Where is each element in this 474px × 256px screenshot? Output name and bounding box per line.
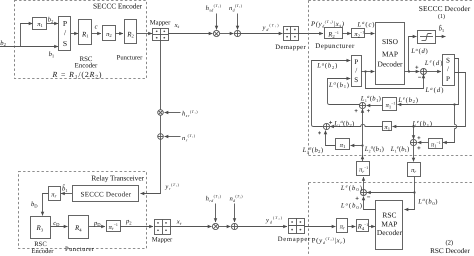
deinterleaver pi1^-1 row3 bbox=[429, 139, 443, 149]
svg-text:Mapper: Mapper bbox=[150, 19, 171, 26]
svg-text:Decoder: Decoder bbox=[377, 228, 403, 237]
wire mapper down to relay bbox=[141, 41, 161, 194]
depuncturer R2^-1 bbox=[325, 28, 343, 39]
mapper (relay) constellation box bbox=[154, 220, 171, 235]
label La(b1) bbox=[328, 81, 349, 90]
adder (source-destination noise) bbox=[234, 30, 240, 36]
wire SISO output to adder with junction bbox=[405, 70, 420, 72]
interleaver pi_r (feedforward) bbox=[408, 163, 421, 177]
svg-text:/: / bbox=[447, 65, 449, 73]
svg-text:yd(T₂): yd(T₂) bbox=[265, 216, 283, 224]
wire R4 to pi_r_inv bbox=[89, 226, 105, 228]
label SECCC Encoder bbox=[93, 1, 143, 10]
adder A3 combining apriori for b2 bbox=[318, 123, 330, 134]
svg-text:L1e(b1): L1e(b1) bbox=[390, 144, 410, 153]
svg-text:b̂1: b̂1 bbox=[62, 184, 68, 193]
svg-text:L1a(b2): L1a(b2) bbox=[333, 119, 354, 128]
wire demapper to depuncturer bbox=[299, 33, 324, 35]
svg-text:P(yd(T₂)|xr): P(yd(T₂)|xr) bbox=[312, 237, 346, 245]
label P(yd(T1)|xs) bbox=[310, 20, 345, 28]
svg-text:SECCC Decoder: SECCC Decoder bbox=[419, 4, 471, 13]
svg-text:La(d): La(d) bbox=[425, 86, 444, 94]
label h_sr(T1) bbox=[182, 110, 198, 118]
label n_d(T2) bbox=[230, 195, 244, 203]
label La(b0) bbox=[417, 197, 437, 206]
svg-text:Le(d): Le(d) bbox=[424, 59, 443, 67]
svg-text:S: S bbox=[354, 76, 358, 84]
multiplier (source-relay channel) bbox=[158, 110, 164, 116]
label R = R1/(2R2) bbox=[52, 70, 102, 81]
label Demapper (T1) bbox=[275, 44, 306, 51]
svg-text:Le(b0): Le(b0) bbox=[340, 184, 362, 193]
svg-text:MAP: MAP bbox=[382, 49, 398, 58]
wire pi1 row3 output up into A3 bbox=[326, 131, 336, 146]
svg-text:RSC: RSC bbox=[382, 211, 396, 220]
interleaver pi_r (decoder 2 input) bbox=[337, 219, 348, 233]
depuncturer R4^-1 bbox=[357, 220, 369, 232]
svg-text:hsd(T₁): hsd(T₁) bbox=[206, 4, 222, 12]
wire mapper to multiplier bbox=[168, 33, 213, 35]
svg-text:Encoder: Encoder bbox=[32, 248, 55, 255]
wire slicer output b1hat bbox=[436, 36, 446, 38]
wire mapper to multiplier (relay-destination) bbox=[170, 226, 212, 228]
deinterleaver pi_r^-1 (relay) bbox=[107, 221, 121, 232]
label RSC Encoder bbox=[75, 56, 98, 70]
RSC MAP decoder box bbox=[376, 201, 403, 250]
label Mapper (source) bbox=[150, 19, 171, 26]
wire R4inv to RSC MAP decoder bbox=[369, 226, 376, 228]
node xs label bbox=[174, 22, 180, 29]
wire P/S to SISO decoder with junction bbox=[361, 70, 375, 72]
svg-text:SISO: SISO bbox=[382, 37, 399, 46]
svg-text:Mapper: Mapper bbox=[152, 236, 173, 243]
node pD label bbox=[93, 220, 101, 227]
deinterleaver pi_r^-1 (feedback) bbox=[357, 162, 370, 176]
label Puncturer (relay) bbox=[65, 246, 95, 253]
wire S/P output2 Le(b1) to pi1 row2 bbox=[393, 73, 466, 128]
label Lo(b0) bbox=[340, 201, 362, 210]
svg-text:L1a(b1): L1a(b1) bbox=[360, 94, 381, 103]
wire pi1 row2 to adder A3 with hop bbox=[330, 124, 382, 126]
svg-text:Le(b1): Le(b1) bbox=[412, 119, 433, 128]
svg-text:/: / bbox=[355, 67, 357, 75]
svg-text:c: c bbox=[95, 24, 98, 31]
label La(d) bbox=[425, 86, 444, 94]
node b1 label bbox=[49, 51, 55, 58]
P/S converter (encoder) bbox=[59, 17, 71, 51]
puncturer R2 bbox=[125, 20, 137, 44]
svg-text:P: P bbox=[446, 75, 450, 83]
adder A4 forming L1e(b1) bbox=[410, 136, 420, 149]
svg-text:Encoder: Encoder bbox=[75, 63, 98, 70]
wire L2a(b1) up from pi_r_inv into A2 bbox=[362, 109, 364, 162]
wire S/P output1 Le(b2) to pi1inv row1 bbox=[398, 59, 459, 106]
label RSC Encoder (relay) bbox=[32, 241, 55, 255]
svg-text:S: S bbox=[63, 39, 67, 48]
svg-text:Lo(b0): Lo(b0) bbox=[340, 201, 362, 210]
label n_d(T1) bbox=[229, 4, 243, 12]
wire pi_r down into R3 bbox=[43, 194, 49, 216]
adder (relay noise) bbox=[158, 134, 164, 140]
svg-text:p2: p2 bbox=[125, 218, 132, 225]
svg-text:yr(T₁): yr(T₁) bbox=[164, 183, 179, 191]
svg-text:nd(T₁): nd(T₁) bbox=[229, 4, 243, 12]
wire Lo(b0) from RSC MAP decoder into A5 bbox=[364, 197, 376, 210]
label La(b2) bbox=[316, 61, 337, 70]
wire n_r into adder bbox=[165, 136, 181, 138]
label h_sd(T1) bbox=[206, 4, 222, 12]
wire branch up to pi1 bbox=[21, 24, 33, 47]
SISO MAP decoder box bbox=[376, 23, 405, 85]
wire R2 to Mapper bbox=[137, 33, 153, 35]
svg-text:nd(T₂): nd(T₂) bbox=[230, 195, 244, 203]
label P(yd(T2)|xr) bbox=[312, 237, 346, 245]
svg-text:hsr(T₁): hsr(T₁) bbox=[182, 110, 198, 118]
svg-text:Relay Transceiver: Relay Transceiver bbox=[91, 174, 144, 183]
wire pi2 to R2 bbox=[116, 33, 124, 35]
svg-text:P: P bbox=[354, 58, 358, 66]
svg-text:P: P bbox=[63, 19, 67, 28]
interleaver pi_r (relay) bbox=[49, 187, 61, 201]
node b2 input label bbox=[0, 40, 6, 47]
SECCC Encoder dashed box bbox=[15, 1, 147, 79]
node c label bbox=[95, 24, 98, 31]
svg-text:b1: b1 bbox=[49, 51, 55, 58]
svg-text:xs: xs bbox=[174, 22, 180, 29]
label Le(b0) bbox=[340, 184, 362, 193]
label Relay Transceiver bbox=[91, 174, 144, 183]
wire Le(b1) branch down into A4 bbox=[413, 127, 415, 140]
S/P converter (decoder) bbox=[443, 55, 455, 86]
RSC encoder R1 bbox=[79, 20, 92, 45]
svg-text:Depuncturer: Depuncturer bbox=[315, 42, 355, 50]
svg-text:b̂1: b̂1 bbox=[439, 24, 445, 33]
wire multiplier to adder (relay noise T2) bbox=[219, 226, 231, 228]
label L1a(b1) bbox=[360, 94, 381, 103]
node xr label bbox=[176, 219, 182, 226]
node b1hat (relay) label bbox=[62, 184, 68, 193]
node p2 label bbox=[125, 218, 132, 225]
label n_r(T1) bbox=[182, 134, 196, 142]
wire pi2inv to SISO decoder bbox=[365, 33, 375, 35]
svg-text:Le(b2): Le(b2) bbox=[397, 96, 418, 105]
svg-text:bD: bD bbox=[31, 201, 38, 208]
svg-text:xr: xr bbox=[176, 219, 182, 226]
svg-text:(1): (1) bbox=[438, 13, 445, 20]
RSC Decoder dashed box bbox=[309, 183, 474, 256]
wire n_d down into adder bbox=[237, 14, 239, 30]
wire pi_r_inv to mapper (relay) bbox=[120, 226, 153, 228]
label + L1a(b2) bbox=[329, 119, 354, 128]
svg-text:Demapper: Demapper bbox=[275, 44, 306, 51]
label SECCC Decoder (1) bbox=[419, 4, 471, 20]
svg-text:La(b1): La(b1) bbox=[328, 81, 349, 90]
wire La(b0) branch into RSC MAP decoder bbox=[405, 193, 415, 210]
adder A2 combining apriori for b1 bbox=[355, 102, 370, 112]
label L1e(b1) bbox=[390, 144, 410, 153]
wire decision branch up bbox=[409, 37, 417, 72]
mapper (source) constellation box bbox=[153, 28, 169, 41]
demapper (destination T2) constellation box bbox=[288, 218, 305, 234]
adder A5 forming Le(b0) bbox=[356, 190, 371, 200]
svg-text:L2a(b1): L2a(b1) bbox=[364, 144, 384, 153]
wire n_d down into adder bbox=[234, 204, 236, 223]
wire R1 to pi2 bbox=[92, 33, 102, 35]
node b2 interleaved label bbox=[48, 17, 54, 24]
wire pi1inv row1 to adder A2 bbox=[367, 105, 383, 107]
wire pi_r down to junction and adder A5 bbox=[367, 177, 416, 194]
demapper (destination T1) constellation box bbox=[284, 26, 299, 41]
svg-text:hrd(T₂): hrd(T₂) bbox=[206, 195, 222, 203]
label Puncturer bbox=[117, 55, 143, 62]
SECCC Decoder dashed box bbox=[309, 1, 474, 156]
svg-text:La(c): La(c) bbox=[357, 20, 375, 28]
label Le(b1) bbox=[412, 119, 433, 128]
svg-text:La(b0): La(b0) bbox=[417, 197, 437, 206]
wire h_sr into multiplier bbox=[165, 112, 181, 114]
wire pi1 to P/S bbox=[47, 23, 59, 25]
Relay Transceiver dashed box bbox=[19, 172, 147, 249]
node cD label bbox=[53, 220, 60, 227]
wire adder to demapper bbox=[241, 33, 283, 35]
puncturer R4 (relay) bbox=[69, 216, 89, 239]
wire P/S to R1 bbox=[71, 33, 78, 35]
wire A3 output La(b2) to P/S bbox=[312, 61, 351, 127]
svg-text:R = R1/(2R2): R = R1/(2R2) bbox=[52, 70, 102, 81]
interleaver pi1 row2 bbox=[383, 122, 392, 132]
wire adder to S/P bbox=[427, 71, 442, 73]
wire junction into pi1 row3 bbox=[351, 144, 364, 146]
label Le(b2) bbox=[397, 96, 418, 105]
label Depuncturer bbox=[315, 42, 355, 50]
deinterleaver pi2^-1 bbox=[352, 29, 365, 39]
label La(c) bbox=[357, 20, 375, 28]
deinterleaver pi1^-1 row1 bbox=[383, 98, 397, 111]
wire La(d) feedback from P/S junction to subtractor bbox=[366, 72, 424, 89]
svg-text:Puncturer: Puncturer bbox=[65, 246, 95, 253]
svg-text:cD: cD bbox=[53, 220, 60, 227]
svg-text:S: S bbox=[446, 56, 450, 64]
node bD label bbox=[31, 201, 38, 208]
wire A5 output up into pi_r_inv bbox=[363, 177, 365, 190]
wire demapper to pi_r (decoder 2) bbox=[305, 226, 336, 228]
wire adder to demapper (T2) bbox=[238, 226, 287, 228]
label L2a(b1) bbox=[364, 144, 384, 153]
RSC encoder R3 (relay) bbox=[31, 217, 51, 239]
wire b2 input to P/S bbox=[0, 46, 58, 48]
svg-text:b2: b2 bbox=[48, 17, 54, 24]
hard decision slicer bbox=[418, 31, 436, 44]
wire Le(b2) branch down with hop to pi1inv row3 bbox=[443, 105, 457, 143]
label Le(d) bbox=[424, 59, 443, 67]
interleaver pi1 bbox=[33, 18, 47, 30]
svg-text:Lo(d): Lo(d) bbox=[410, 47, 428, 55]
adder Le(d) = Lo(d) - La(d) bbox=[415, 66, 426, 78]
label (2) RSC Decoder bbox=[430, 240, 470, 256]
label L2a(b2) bbox=[302, 145, 324, 154]
wire h_rd down into multiplier bbox=[215, 204, 217, 223]
adder (destination noise T2) bbox=[231, 223, 237, 229]
svg-text:SECCC Decoder: SECCC Decoder bbox=[81, 190, 132, 198]
wire pi_r to R4inv bbox=[348, 226, 356, 228]
P/S converter (decoder) bbox=[352, 56, 362, 87]
multiplier (source-destination channel) bbox=[213, 30, 219, 36]
svg-text:pD: pD bbox=[93, 220, 101, 227]
SECCC decoder block (relay) bbox=[73, 186, 139, 202]
interleaver pi1 row3 left bbox=[336, 139, 350, 150]
wire R3 to R4 bbox=[51, 226, 68, 228]
wire A4 output down to pi_r bbox=[413, 146, 415, 162]
label h_rd(T2) bbox=[206, 195, 222, 203]
svg-text:SECCC Encoder: SECCC Encoder bbox=[93, 1, 143, 10]
svg-text:Puncturer: Puncturer bbox=[117, 55, 143, 62]
node b1hat label bbox=[439, 24, 445, 33]
wire A2 output La(b1) to P/S bbox=[328, 79, 360, 105]
svg-text:Decoder: Decoder bbox=[377, 60, 403, 69]
node yr(T1) label bbox=[164, 183, 179, 191]
svg-text:La(b2): La(b2) bbox=[316, 61, 337, 70]
label Lo(d) bbox=[410, 47, 428, 55]
label Mapper (relay) bbox=[152, 236, 173, 243]
node yd(T1) label bbox=[262, 24, 280, 32]
svg-text:Demapper: Demapper bbox=[278, 236, 311, 243]
svg-text:nr(T₁): nr(T₁) bbox=[182, 134, 196, 142]
wire R2inv to pi2inv bbox=[342, 33, 351, 35]
svg-text:yd(T₁): yd(T₁) bbox=[262, 24, 280, 32]
wire pi1inv row3 to A4 bbox=[418, 142, 429, 144]
interleaver pi2 bbox=[103, 26, 116, 41]
svg-text:RSC Decoder: RSC Decoder bbox=[430, 247, 470, 255]
svg-text:L2a(b2): L2a(b2) bbox=[302, 145, 324, 154]
node yd(T2) label bbox=[265, 216, 283, 224]
svg-text:(2): (2) bbox=[445, 240, 453, 247]
wire h_sd down into multiplier bbox=[216, 14, 218, 30]
multiplier (relay-destination channel) bbox=[212, 223, 218, 229]
label Demapper (T2) bbox=[278, 236, 311, 243]
wire relay SECCC decoder to pi_r bbox=[61, 193, 72, 195]
wire multiplier to adder bbox=[220, 33, 234, 35]
